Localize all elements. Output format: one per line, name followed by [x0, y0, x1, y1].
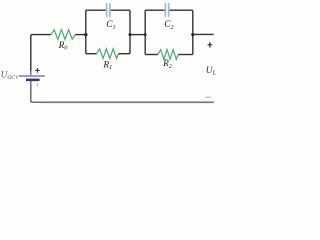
wire: connector between loops — [130, 34, 145, 36]
label + (output terminal) — [208, 42, 213, 48]
svg-text:C2: C2 — [164, 20, 173, 31]
wire: battery top lead up and over to R0 — [31, 35, 51, 72]
node: junction dot loop2 right — [191, 33, 194, 36]
battery U_OCV: thick short plate (negative) — [26, 79, 40, 82]
wire: loop1 right vertical — [129, 10, 131, 54]
battery negative stub (purple) — [30, 81, 32, 86]
wire: loop1 top left segment — [86, 9, 106, 11]
wire: loop1 top right segment — [111, 9, 130, 11]
wire: loop1 bottom left lead — [86, 53, 97, 55]
resistor R1 — [97, 49, 119, 59]
wire: loop1 bottom right lead — [118, 53, 130, 55]
label + (battery) — [35, 68, 40, 73]
wire: bottom return rail — [44, 101, 214, 103]
label - (output terminal, bottom right) — [206, 97, 211, 98]
svg-text:R1: R1 — [102, 61, 112, 72]
svg-text:UOCV: UOCV — [1, 70, 19, 81]
wire: output lead to UL+ — [193, 33, 214, 35]
wire: battery bottom lead down to return rail — [31, 85, 45, 102]
node: junction dot loop1 left — [84, 33, 87, 36]
wire: loop2 left vertical — [144, 10, 146, 54]
node: junction dot loop1 right — [129, 33, 132, 36]
svg-text:UL: UL — [206, 66, 217, 77]
battery U_OCV: thin long plate (positive) — [19, 75, 45, 77]
svg-text:C1: C1 — [106, 20, 115, 31]
resistor R2 — [158, 50, 179, 60]
wire: loop2 top left segment — [145, 9, 164, 11]
svg-text:R2: R2 — [162, 59, 172, 70]
node: junction dot loop2 left — [144, 33, 147, 36]
wire: R0 to loop1 junction — [75, 34, 86, 36]
wire: loop2 right vertical — [192, 10, 194, 54]
battery negative tick — [37, 83, 38, 87]
wire: loop1 left vertical — [85, 10, 87, 54]
svg-text:R0: R0 — [58, 41, 69, 52]
wire: loop2 bottom left lead — [145, 54, 158, 56]
resistor R0 — [51, 30, 75, 40]
wire: loop2 bottom right lead — [178, 54, 192, 56]
capacitor C1 — [107, 3, 110, 17]
battery positive stub (purple) — [30, 71, 32, 76]
capacitor C2 — [165, 3, 168, 17]
wire: loop2 top right segment — [170, 9, 193, 11]
